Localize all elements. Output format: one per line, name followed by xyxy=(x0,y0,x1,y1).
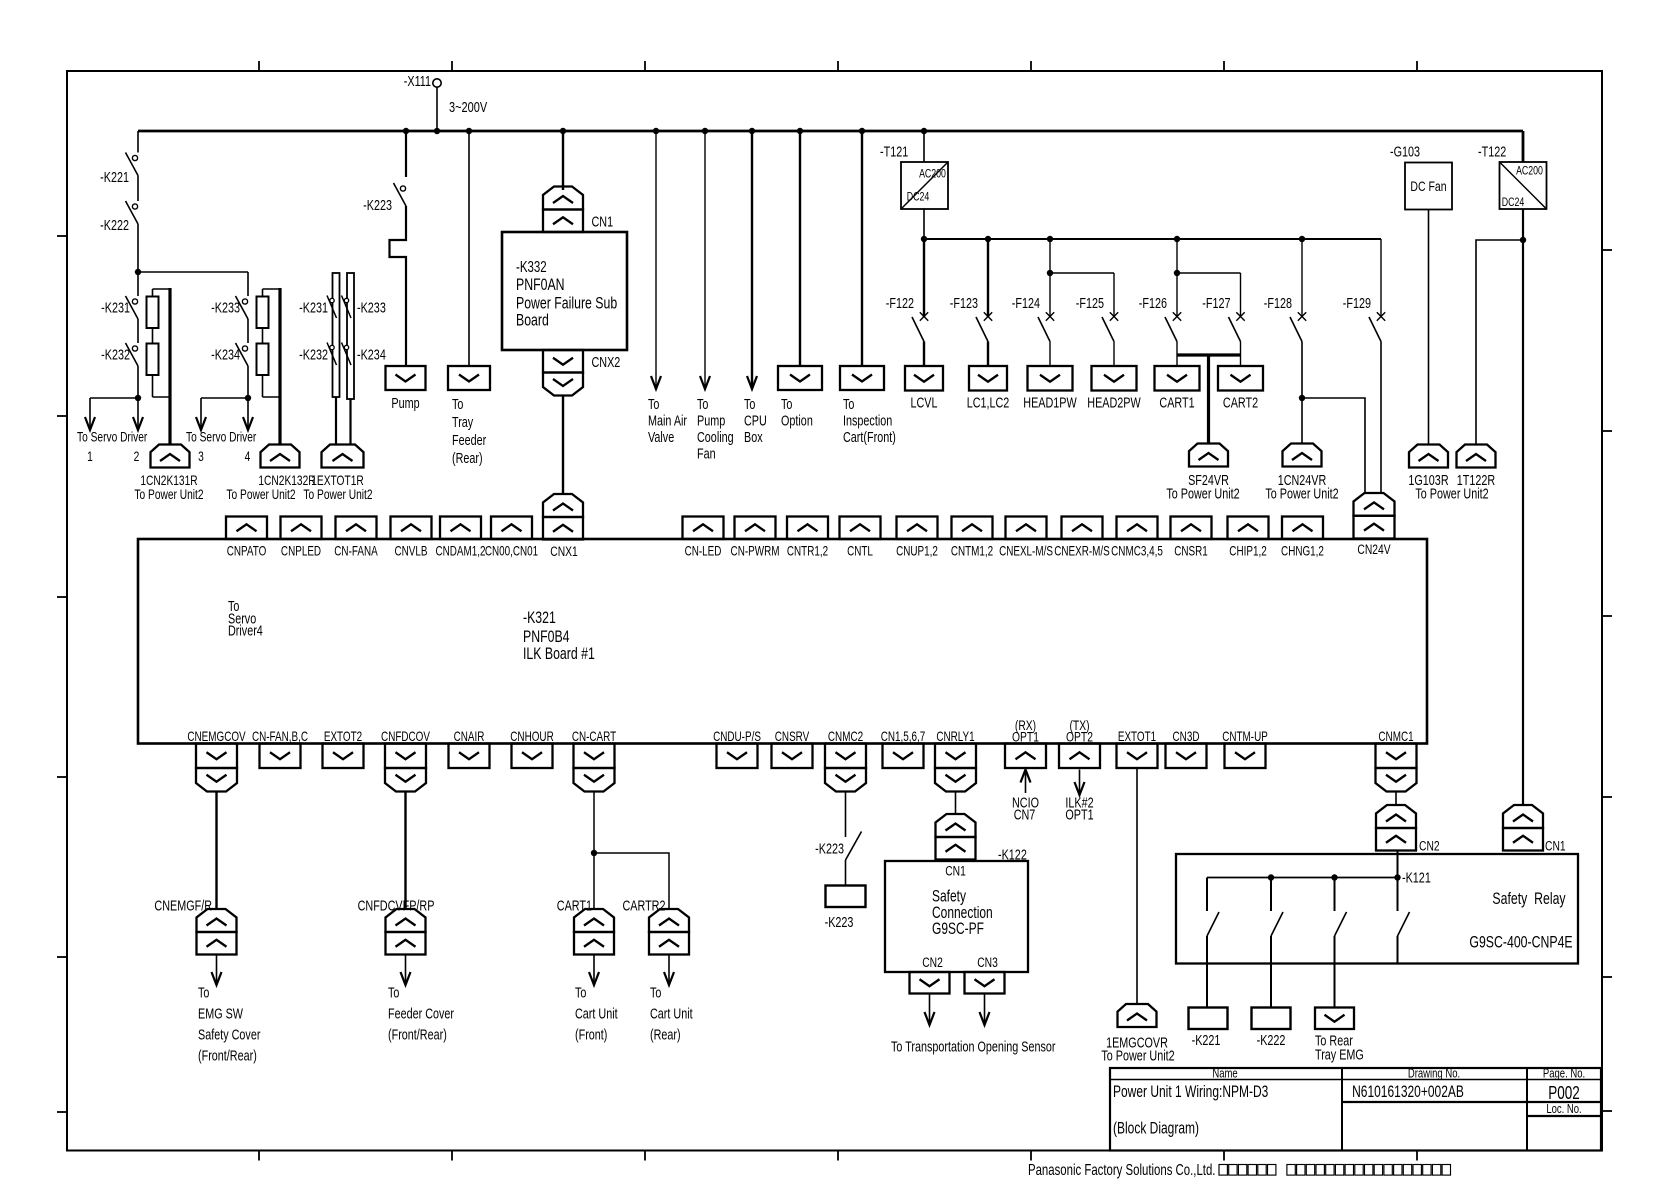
svg-text:-K121: -K121 xyxy=(1402,869,1431,886)
label ILK#2 OPT1 xyxy=(1065,794,1093,823)
wire F128 branch to CN24V xyxy=(1302,398,1365,493)
contact -K233 aux xyxy=(342,296,352,319)
resistor R2a xyxy=(257,297,269,329)
connector CN24V xyxy=(1354,493,1395,539)
svg-text:1: 1 xyxy=(87,449,93,465)
connector CNEXR-M/S xyxy=(1062,517,1103,540)
connector CN3D xyxy=(1166,744,1207,769)
svg-text:CNHOUR: CNHOUR xyxy=(510,730,553,745)
connector OPT2 xyxy=(1059,744,1100,769)
wire K221 to K222 xyxy=(137,176,139,202)
wire to fuse -F126 xyxy=(1176,239,1178,318)
svg-text:CNDU-P/S: CNDU-P/S xyxy=(713,730,761,745)
fuse -F126 xyxy=(1165,312,1181,341)
connector 1CN2K131R xyxy=(151,445,190,468)
device box HEAD2PW xyxy=(1092,366,1137,391)
svg-text:CNSR1: CNSR1 xyxy=(1174,544,1208,559)
svg-text:CN1: CN1 xyxy=(1545,838,1566,854)
node T122 branch xyxy=(1520,237,1526,243)
resistor R1a xyxy=(147,297,159,329)
connector CNPATO xyxy=(226,517,267,540)
svg-text:CN1: CN1 xyxy=(945,863,966,879)
svg-text:To: To xyxy=(452,395,463,412)
connector CNTM-UP xyxy=(1225,744,1266,769)
svg-text:Cooling: Cooling xyxy=(697,428,734,445)
wire CNEMGCOV down xyxy=(215,792,217,910)
svg-text:-T122: -T122 xyxy=(1478,143,1506,160)
wire bus corner to T122 xyxy=(1522,131,1525,162)
connector CNMC1 plug xyxy=(1376,768,1417,792)
wire EXTOT1 down xyxy=(1136,768,1138,1004)
svg-text:CPU: CPU xyxy=(744,412,767,429)
connector 1G103R xyxy=(1409,445,1448,468)
svg-text:Page. No.: Page. No. xyxy=(1543,1067,1585,1081)
svg-text:-F124: -F124 xyxy=(1012,294,1040,311)
resistor R2b xyxy=(257,344,269,376)
wire relay contact 4 upper xyxy=(1397,851,1399,911)
node group2 bottom xyxy=(245,395,251,401)
svg-text:To Power Unit2: To Power Unit2 xyxy=(1415,485,1488,502)
svg-text:Panasonic Factory Solutions Co: Panasonic Factory Solutions Co.,Ltd. xyxy=(1028,1161,1215,1178)
wire F129 to CN24V xyxy=(1380,342,1382,494)
svg-text:EMG SW: EMG SW xyxy=(198,1005,244,1022)
wire K222 to node xyxy=(137,224,139,272)
svg-text:Drawing No.: Drawing No. xyxy=(1408,1067,1460,1081)
label To EMG SW Safety Cover xyxy=(198,984,261,1064)
svg-text:CN3: CN3 xyxy=(977,955,998,971)
contact K121-2 xyxy=(1271,912,1283,936)
svg-text:P002: P002 xyxy=(1548,1083,1580,1103)
switch -K223 xyxy=(394,183,407,206)
connector CNRLY1 plug xyxy=(935,768,976,792)
wire K223 aux to coil xyxy=(845,860,847,886)
svg-text:PNF0B4: PNF0B4 xyxy=(523,628,569,646)
svg-text:CN2: CN2 xyxy=(1419,838,1440,854)
arrow OPT2 to ILK#2 xyxy=(1075,770,1085,796)
svg-text:CNRLY1: CNRLY1 xyxy=(936,730,974,745)
connector CNSRV xyxy=(772,744,813,769)
svg-text:(Rear): (Rear) xyxy=(650,1026,681,1043)
arrow to servo driver 1 xyxy=(85,398,95,430)
svg-text:CNFDCOV: CNFDCOV xyxy=(381,730,430,745)
svg-text:CNEXR-M/S: CNEXR-M/S xyxy=(1054,544,1110,559)
svg-text:-K231: -K231 xyxy=(299,299,328,316)
label Safety Connection G9SC-PF xyxy=(932,888,993,939)
arrow to pump cooling fan xyxy=(700,131,710,389)
junction dots DC bus xyxy=(921,236,1305,242)
svg-text:OPT1: OPT1 xyxy=(1065,806,1093,823)
svg-text:To: To xyxy=(843,395,854,412)
connector CNRLY1 xyxy=(935,744,976,769)
svg-text:To: To xyxy=(650,984,661,1001)
svg-text:CART1: CART1 xyxy=(1159,394,1194,411)
svg-text:CHIP1,2: CHIP1,2 xyxy=(1229,544,1266,559)
svg-text:OPT2: OPT2 xyxy=(1066,729,1093,745)
svg-text:CN-FANA: CN-FANA xyxy=(334,544,378,559)
svg-text:Tray EMG: Tray EMG xyxy=(1315,1046,1364,1063)
wire -F123 to box xyxy=(987,342,989,367)
device box LC1,LC2 xyxy=(969,366,1007,391)
arrow CN2 sensor xyxy=(925,994,935,1026)
label To Servo Driver 1 2 xyxy=(77,429,147,464)
node F128 branch xyxy=(1299,395,1305,401)
connector CN00,CN01 xyxy=(491,517,532,540)
svg-text:CNTM1,2: CNTM1,2 xyxy=(951,544,993,559)
wire -F127 to box xyxy=(1240,342,1242,367)
label To Tray Feeder (Rear) xyxy=(452,395,487,466)
switch -K221 xyxy=(126,153,139,176)
contact K121-1 xyxy=(1207,912,1219,936)
svg-text:EXTOT1: EXTOT1 xyxy=(1118,730,1156,745)
connector CNEMGF/R xyxy=(197,909,237,955)
switch -K222 xyxy=(126,201,139,224)
connector CNTL xyxy=(840,517,881,540)
svg-text:-K231: -K231 xyxy=(101,299,130,316)
svg-text:(Front/Rear): (Front/Rear) xyxy=(198,1047,257,1064)
label To CPU Box xyxy=(744,395,767,445)
label To Cart Unit (Front) xyxy=(575,984,618,1043)
wire K231-K232 xyxy=(137,319,139,343)
wire group1 top xyxy=(137,272,139,296)
fuse -F127 xyxy=(1229,312,1245,341)
wire CNMC2 down xyxy=(845,792,847,838)
contact bar right xyxy=(347,273,354,399)
svg-text:To: To xyxy=(575,984,586,1001)
svg-text:-T121: -T121 xyxy=(880,143,908,160)
arrow cart unit rear xyxy=(664,955,674,986)
wire -F125 to box xyxy=(1113,342,1115,367)
wire CNRLY1 down xyxy=(955,792,957,815)
connector CN-PWRM xyxy=(735,517,776,540)
svg-text:Inspection: Inspection xyxy=(843,412,892,429)
svg-text:Valve: Valve xyxy=(648,428,674,445)
wire bus to option box xyxy=(799,131,801,366)
svg-text:N610161320+002AB: N610161320+002AB xyxy=(1352,1083,1464,1101)
svg-text:CNVLB: CNVLB xyxy=(395,544,428,559)
svg-text:To: To xyxy=(198,984,209,1001)
connector 1EMGCOVR xyxy=(1118,1004,1157,1027)
svg-text:To Power Unit2: To Power Unit2 xyxy=(134,487,203,503)
wire resistor1 top stub xyxy=(152,289,154,297)
wire bus to tray feeder xyxy=(468,131,470,366)
connector CNHOUR xyxy=(512,744,553,769)
svg-text:Pump: Pump xyxy=(391,394,419,411)
label (TX) OPT2 xyxy=(1066,718,1093,746)
wire bus to K221 xyxy=(137,131,139,153)
connector CNAIR xyxy=(449,744,490,769)
contact bar left xyxy=(333,273,340,397)
connector CARTR2 xyxy=(649,909,689,955)
svg-text:CNDAM1,2: CNDAM1,2 xyxy=(435,544,485,559)
wire G103 to 1G103R xyxy=(1428,210,1430,446)
svg-text:Tray: Tray xyxy=(452,413,474,430)
svg-text:To Power Unit2: To Power Unit2 xyxy=(1265,485,1338,502)
connector CN1,5,6,7 xyxy=(883,744,924,769)
wire to fuse -F123 xyxy=(987,239,989,318)
label 1EXTOT1R xyxy=(303,473,372,503)
switch -K233 xyxy=(236,296,249,319)
label To Feeder Cover xyxy=(388,984,455,1043)
svg-text:Power Unit 1 Wiring:NPM-D3: Power Unit 1 Wiring:NPM-D3 xyxy=(1113,1083,1268,1101)
svg-text:CN-PWRM: CN-PWRM xyxy=(731,544,780,559)
connector CN-FAN,B,C xyxy=(260,744,301,769)
svg-text:-K222: -K222 xyxy=(100,216,129,233)
label -K321 PNF0B4 ILK Board #1 xyxy=(523,609,595,663)
svg-text:Cart Unit: Cart Unit xyxy=(575,1005,618,1022)
connector EXTOT1 xyxy=(1117,744,1158,769)
wire relay contact 3 upper xyxy=(1334,878,1336,912)
label 1CN2K132R xyxy=(226,473,315,503)
svg-text:-K232: -K232 xyxy=(299,346,328,363)
svg-text:-K233: -K233 xyxy=(211,299,240,316)
svg-text:AC200: AC200 xyxy=(919,168,946,180)
svg-text:-K332: -K332 xyxy=(516,258,547,275)
device box tray feeder xyxy=(448,366,490,390)
wire resistor2 top link xyxy=(263,288,281,290)
wire X111 to bus xyxy=(436,88,438,132)
svg-text:-K233: -K233 xyxy=(357,299,386,316)
wire to fuse -F124 xyxy=(1049,239,1051,318)
wire bar left down xyxy=(335,397,337,444)
node -X111 xyxy=(404,72,441,89)
arrow NCIO CN7 into OPT1 xyxy=(1021,770,1031,794)
connector CNEMGCOV plug xyxy=(196,768,237,792)
fuse -F125 xyxy=(1102,312,1118,341)
device box CART1 xyxy=(1155,366,1200,391)
svg-text:CNMC1: CNMC1 xyxy=(1378,730,1413,745)
board -K321 ILK Board #1 xyxy=(138,539,1427,744)
svg-text:Loc. No.: Loc. No. xyxy=(1546,1103,1581,1117)
connector CNFDCOV xyxy=(385,744,426,769)
cable to 1CN2K131R xyxy=(168,288,171,445)
connector CNMC1 xyxy=(1376,744,1417,769)
svg-text:LC1,LC2: LC1,LC2 xyxy=(967,394,1010,411)
device box CART2 xyxy=(1218,366,1263,391)
board Safety Connection G9SC-PF xyxy=(885,861,1028,972)
wire F124/F125 branch xyxy=(1047,270,1114,276)
svg-text:Box: Box xyxy=(744,428,763,445)
wire relay contact 1 upper xyxy=(1206,878,1208,912)
connector CART1 xyxy=(574,909,614,955)
svg-text:(Front): (Front) xyxy=(575,1026,607,1043)
svg-text:CNMC3,4,5: CNMC3,4,5 xyxy=(1111,544,1163,559)
arrow EMG SW xyxy=(212,955,222,986)
svg-text:HEAD2PW: HEAD2PW xyxy=(1087,394,1141,411)
contact K121-3 xyxy=(1335,912,1347,936)
svg-text:CN7: CN7 xyxy=(1014,806,1036,823)
connector CNFDCVFP/RP xyxy=(386,909,426,955)
connector CN1 G9SC-PF xyxy=(936,814,976,860)
switch -K232 xyxy=(126,343,139,366)
device box rear tray EMG xyxy=(1315,1008,1354,1030)
svg-text:Name: Name xyxy=(1212,1067,1237,1081)
cable CART bracket xyxy=(1177,353,1241,356)
board Safety Relay G9SC-400-CNP4E xyxy=(1176,854,1578,964)
svg-text:-F129: -F129 xyxy=(1343,294,1371,311)
contact -K232 aux xyxy=(327,343,337,366)
svg-text:CNX2: CNX2 xyxy=(592,353,621,370)
connector 1CN2K132R xyxy=(261,445,300,468)
svg-text:Feeder: Feeder xyxy=(452,431,487,448)
wire group1 bottom xyxy=(90,397,138,399)
svg-text:-K232: -K232 xyxy=(101,346,130,363)
device box LCVL xyxy=(905,366,943,391)
svg-text:To: To xyxy=(388,984,399,1001)
wire to fuse -F127 xyxy=(1240,273,1242,318)
wire T122 down right side xyxy=(1522,209,1524,805)
connector CNVLB xyxy=(391,517,432,540)
svg-text:-F126: -F126 xyxy=(1139,294,1167,311)
label 1EMGCOVR xyxy=(1101,1034,1174,1064)
svg-text:To Power Unit2: To Power Unit2 xyxy=(226,487,295,503)
label To Pump Cooling Fan xyxy=(697,395,734,462)
connector CNEMGCOV xyxy=(196,744,237,769)
connector CNDU-P/S xyxy=(717,744,758,769)
svg-text:CNUP1,2: CNUP1,2 xyxy=(896,544,938,559)
node K121 b xyxy=(1331,874,1337,880)
label To Servo Driver4 xyxy=(228,597,263,638)
svg-text:CNSRV: CNSRV xyxy=(775,730,810,745)
label 1CN24VR xyxy=(1265,471,1338,502)
wire K232 down xyxy=(137,366,139,398)
svg-text:CNTL: CNTL xyxy=(847,544,873,559)
svg-text:CNFDCVFP/RP: CNFDCVFP/RP xyxy=(358,897,435,914)
wire resistor1 bottom stub xyxy=(152,375,154,397)
connector CNUP1,2 xyxy=(897,517,938,540)
coil -K221 xyxy=(1189,1008,1228,1030)
connector CNEXL-M/S xyxy=(1006,517,1047,540)
wire group2 top xyxy=(247,272,249,296)
connector CNMC2 plug xyxy=(825,768,866,792)
connector 1CN24VR xyxy=(1283,444,1322,467)
connector CN-CART plug xyxy=(574,768,615,792)
wire R2a-R2b xyxy=(262,328,264,344)
wire CNMC1 down xyxy=(1395,792,1397,806)
wire T121 to DC bus xyxy=(923,209,925,239)
wire bus to T121 xyxy=(923,131,925,162)
svg-text:To Servo Driver: To Servo Driver xyxy=(186,429,256,445)
connector CNDAM1,2 xyxy=(440,517,481,540)
wire resistor2 bottom stub xyxy=(262,375,264,397)
svg-text:AC200: AC200 xyxy=(1516,165,1543,177)
svg-text:LCVL: LCVL xyxy=(910,394,937,411)
transformer -T122 xyxy=(1500,162,1547,209)
label (RX) OPT1 xyxy=(1012,718,1039,746)
connector EXTOT2 xyxy=(323,744,364,769)
svg-text:CNTM-UP: CNTM-UP xyxy=(1222,730,1268,745)
svg-text:To Power Unit2: To Power Unit2 xyxy=(1166,485,1239,502)
svg-text:To: To xyxy=(648,395,659,412)
fuse -F124 xyxy=(1038,312,1054,341)
wire to fuse -F129 xyxy=(1380,239,1382,318)
arrow feeder cover xyxy=(401,955,411,986)
wire K223 overload jog xyxy=(390,206,407,366)
connector CN2 G9SC-PF xyxy=(910,972,950,994)
svg-text:CNPATO: CNPATO xyxy=(227,544,267,559)
connector CHNG1,2 xyxy=(1282,517,1323,540)
label NCIO CN7 xyxy=(1012,794,1039,823)
connector CNSR1 xyxy=(1171,517,1212,540)
wire relay contact 2 lower xyxy=(1270,936,1272,1008)
connector CNTR1,2 xyxy=(787,517,828,540)
svg-text:DC24: DC24 xyxy=(907,191,930,203)
svg-text:-F123: -F123 xyxy=(950,294,978,311)
wire group2 bottom xyxy=(201,397,248,399)
junction dots on AC bus xyxy=(403,128,927,134)
wire bus to K223 xyxy=(405,131,407,177)
device box HEAD1PW xyxy=(1028,366,1073,391)
connector 1T122R xyxy=(1457,445,1496,468)
svg-text:(Rear): (Rear) xyxy=(452,449,483,466)
connector SF24VR xyxy=(1189,444,1228,467)
svg-text:To Power Unit2: To Power Unit2 xyxy=(1101,1047,1174,1064)
node servo feed xyxy=(135,269,141,275)
svg-text:G9SC-PF: G9SC-PF xyxy=(932,920,984,938)
wire to fuse -F128 xyxy=(1301,239,1303,318)
svg-text:3~200V: 3~200V xyxy=(449,98,487,115)
node group1 bottom xyxy=(135,395,141,401)
wire bar right down xyxy=(349,399,351,444)
wire bus to inspection cart xyxy=(861,131,863,366)
label To Main Air Valve xyxy=(648,395,688,445)
svg-text:Safety Cover: Safety Cover xyxy=(198,1026,261,1043)
svg-text:CART1: CART1 xyxy=(557,897,592,914)
svg-text:-G103: -G103 xyxy=(1390,143,1420,160)
svg-text:CNX1: CNX1 xyxy=(550,544,578,560)
cable to 1CN2K132R xyxy=(278,288,281,445)
wire resistor1 top link xyxy=(153,288,171,290)
wire bus to CN1 xyxy=(562,131,564,190)
wire main AC bus xyxy=(138,130,1523,133)
svg-text:CN24V: CN24V xyxy=(1357,542,1391,558)
arrow to servo driver 4 xyxy=(243,398,253,430)
connector CN1 safety relay xyxy=(1503,805,1543,851)
switch -K231 xyxy=(126,296,139,319)
switch -K234 xyxy=(236,343,249,366)
fuse -F122 xyxy=(912,312,928,341)
arrow to servo driver 3 xyxy=(196,398,206,430)
connector CN2 safety relay xyxy=(1376,805,1416,851)
svg-text:Fan: Fan xyxy=(697,445,716,462)
svg-text:CN-LED: CN-LED xyxy=(685,544,722,559)
wire to fuse -F125 xyxy=(1113,273,1115,318)
svg-text:Driver4: Driver4 xyxy=(228,622,263,639)
connector CNFDCOV plug xyxy=(385,768,426,792)
arrow CN3 sensor xyxy=(980,994,990,1026)
wire DC24 bus xyxy=(924,238,1381,240)
node K121 a xyxy=(1268,874,1274,880)
svg-text:PNF0AN: PNF0AN xyxy=(516,276,565,294)
board -K332 PNF0AN xyxy=(502,232,627,350)
contact -K231 aux xyxy=(327,296,337,319)
svg-text:Power Failure Sub: Power Failure Sub xyxy=(516,295,617,313)
svg-text:Cart(Front): Cart(Front) xyxy=(843,428,896,445)
svg-text:CN-FAN,B,C: CN-FAN,B,C xyxy=(252,730,308,745)
coil -K223 xyxy=(826,886,866,908)
connector CHIP1,2 xyxy=(1228,517,1269,540)
svg-text:OPT1: OPT1 xyxy=(1012,729,1039,745)
device box to option xyxy=(778,366,822,390)
svg-text:-F122: -F122 xyxy=(886,294,914,311)
wire R1a-R1b xyxy=(152,328,154,344)
svg-text:CN00,CN01: CN00,CN01 xyxy=(485,544,538,559)
svg-text:CN1,5,6,7: CN1,5,6,7 xyxy=(881,730,926,745)
svg-text:To: To xyxy=(697,395,708,412)
svg-text:-K321: -K321 xyxy=(523,609,556,627)
svg-text:To Servo Driver: To Servo Driver xyxy=(77,429,147,445)
svg-text:-K223: -K223 xyxy=(363,196,392,213)
svg-text:-K234: -K234 xyxy=(357,346,386,363)
